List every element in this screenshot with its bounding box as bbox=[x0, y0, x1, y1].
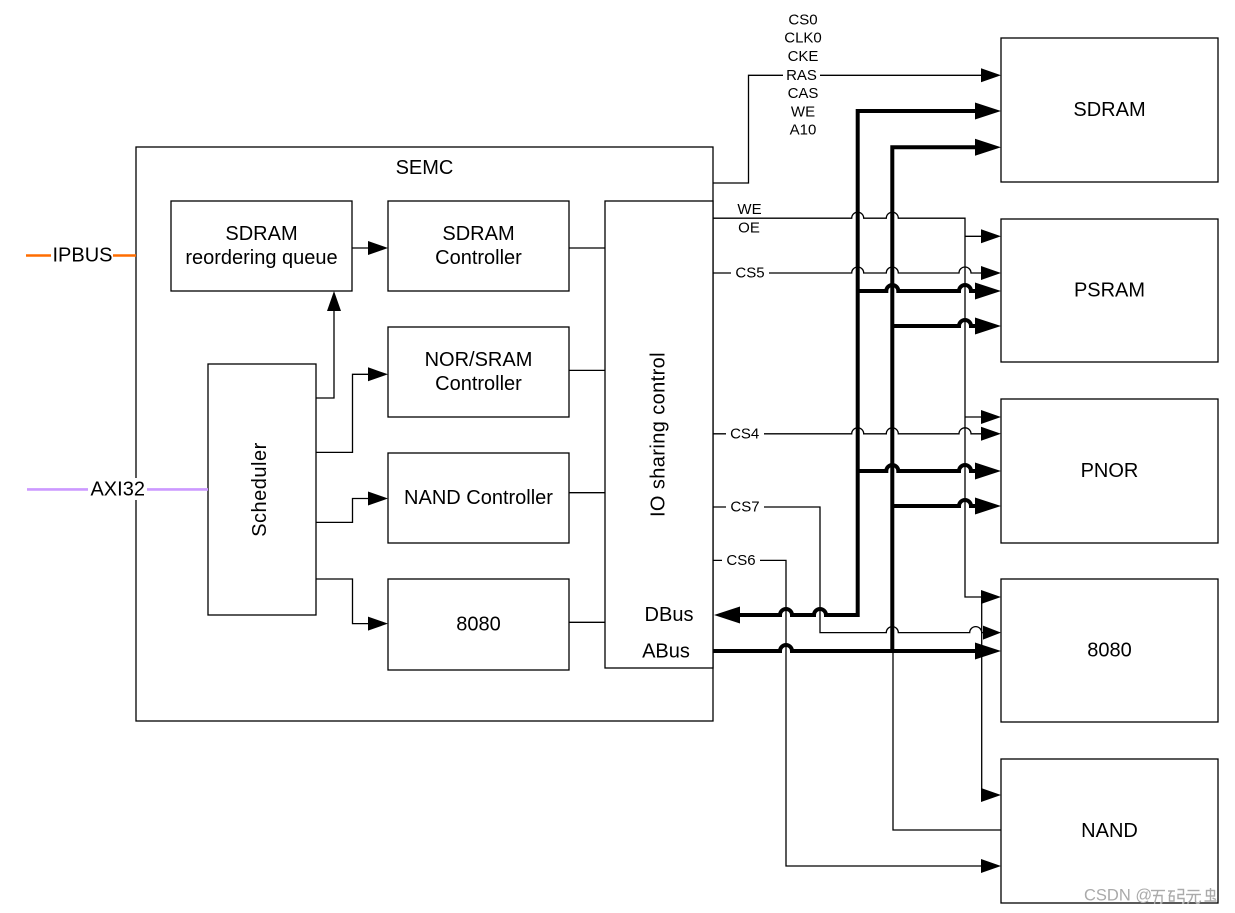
svg-text:Controller: Controller bbox=[435, 373, 522, 395]
watermark glyph ma bbox=[1168, 890, 1184, 904]
svg-text:OE: OE bbox=[738, 220, 760, 237]
block IO sharing control bbox=[605, 201, 713, 668]
wire DBus branch to PNOR (thick) bbox=[858, 463, 1001, 480]
net label AXI32 bbox=[88, 478, 147, 500]
svg-text:PSRAM: PSRAM bbox=[1074, 280, 1145, 302]
svg-text:8080: 8080 bbox=[456, 614, 501, 636]
wire NAND Controller to IO sharing control bbox=[569, 492, 605, 494]
watermark glyph wu bbox=[1186, 891, 1201, 904]
wire NOR/SRAM Controller to IO sharing control bbox=[569, 369, 605, 371]
svg-text:Scheduler: Scheduler bbox=[249, 442, 271, 537]
watermark glyph chong bbox=[1205, 888, 1217, 901]
svg-text:8080: 8080 bbox=[1087, 640, 1132, 662]
wire thin drop from ABus junction to NAND bbox=[893, 651, 1001, 830]
svg-text:NAND Controller: NAND Controller bbox=[404, 487, 553, 509]
svg-text:CAS: CAS bbox=[788, 85, 819, 102]
block PNOR bbox=[1001, 399, 1218, 543]
svg-text:CKE: CKE bbox=[788, 48, 819, 65]
wire IPBUS left segment (orange) bbox=[26, 254, 51, 257]
svg-text:CS4: CS4 bbox=[730, 425, 759, 442]
svg-text:DBus: DBus bbox=[645, 604, 694, 626]
wire ABus branch to PSRAM (thick) bbox=[892, 318, 1001, 335]
wire 8080 inner to IO sharing control bbox=[569, 621, 605, 623]
svg-text:SDRAM: SDRAM bbox=[442, 223, 514, 245]
block NAND bbox=[1001, 759, 1218, 903]
svg-text:CS5: CS5 bbox=[735, 265, 764, 282]
wire Scheduler to NOR/SRAM Controller bbox=[316, 367, 388, 452]
svg-text:Controller: Controller bbox=[435, 247, 522, 269]
wire CS7 to 8080 bbox=[713, 499, 1001, 640]
block SDRAM Controller bbox=[388, 201, 569, 291]
svg-text:CS6: CS6 bbox=[726, 552, 755, 569]
svg-text:CSDN @: CSDN @ bbox=[1084, 887, 1152, 905]
svg-text:NAND: NAND bbox=[1081, 820, 1138, 842]
wire AXI32 right segment (purple) bbox=[146, 488, 208, 491]
svg-text:WE: WE bbox=[737, 201, 761, 218]
svg-text:WE: WE bbox=[791, 103, 815, 120]
wire CS6 to NAND bbox=[713, 552, 1001, 873]
block 8080 inner bbox=[388, 579, 569, 670]
svg-text:IPBUS: IPBUS bbox=[52, 245, 112, 267]
block NAND Controller bbox=[388, 453, 569, 543]
svg-text:RAS: RAS bbox=[786, 67, 817, 84]
wire ABus riser to SDRAM (thick) bbox=[892, 139, 1001, 651]
wire SDRAM control bundle (CS0 CLK0 CKE RAS CAS WE A10) to SDRAM bbox=[713, 68, 1001, 183]
svg-text:reordering queue: reordering queue bbox=[185, 247, 337, 269]
block SDRAM reordering queue bbox=[171, 201, 352, 291]
block SDRAM (external) bbox=[1001, 38, 1218, 182]
wire CS5 to PSRAM bbox=[713, 265, 1001, 282]
wire DBus (thick, arrow into SEMC) with riser to SDRAM bbox=[714, 103, 1001, 624]
svg-text:ABus: ABus bbox=[642, 641, 690, 663]
wire Scheduler to reordering queue (up arrow) bbox=[316, 291, 341, 398]
svg-text:IO sharing control: IO sharing control bbox=[648, 352, 670, 517]
svg-text:AXI32: AXI32 bbox=[90, 478, 144, 500]
watermark CSDN bbox=[1084, 887, 1217, 905]
svg-text:SDRAM: SDRAM bbox=[225, 223, 297, 245]
watermark glyph wan bbox=[1151, 891, 1165, 904]
svg-text:NOR/SRAM: NOR/SRAM bbox=[425, 349, 533, 371]
wire WE/OE from IO sharing control bbox=[713, 212, 1001, 604]
wire DBus branch to PSRAM (thick) bbox=[858, 283, 1001, 300]
wire IPBUS right segment (orange) bbox=[113, 254, 136, 257]
wire AXI32 left segment (purple) bbox=[27, 488, 89, 491]
block NOR/SRAM Controller bbox=[388, 327, 569, 417]
svg-text:CS7: CS7 bbox=[730, 499, 759, 516]
svg-text:PNOR: PNOR bbox=[1081, 460, 1139, 482]
wire reordering queue to SDRAM Controller bbox=[352, 241, 388, 255]
wire CS4 to PNOR bbox=[713, 425, 1001, 442]
wire ABus branch to PNOR (thick) bbox=[892, 498, 1001, 515]
pin labels CS0 CLK0 CKE RAS CAS WE A10 bbox=[783, 11, 822, 138]
wire WE/OE branch to PSRAM bbox=[965, 229, 1001, 243]
wire SDRAM Controller to IO sharing control bbox=[569, 247, 605, 249]
block PSRAM bbox=[1001, 219, 1218, 362]
svg-text:SDRAM: SDRAM bbox=[1073, 99, 1145, 121]
wire Scheduler to 8080 inner bbox=[316, 579, 388, 631]
svg-text:CLK0: CLK0 bbox=[784, 30, 822, 47]
svg-text:A10: A10 bbox=[790, 122, 817, 139]
wire WE/OE branch to PNOR bbox=[965, 410, 1001, 424]
block 8080 (external) bbox=[1001, 579, 1218, 722]
wire Scheduler to NAND Controller bbox=[316, 492, 388, 523]
block Scheduler bbox=[208, 364, 316, 615]
block SEMC outer box bbox=[136, 147, 713, 721]
wire WE/OE branch to NAND bbox=[981, 597, 1001, 802]
wire ABus (thick) to 8080 bbox=[713, 643, 1001, 660]
svg-text:CS0: CS0 bbox=[788, 11, 817, 28]
svg-text:SEMC: SEMC bbox=[396, 157, 454, 179]
